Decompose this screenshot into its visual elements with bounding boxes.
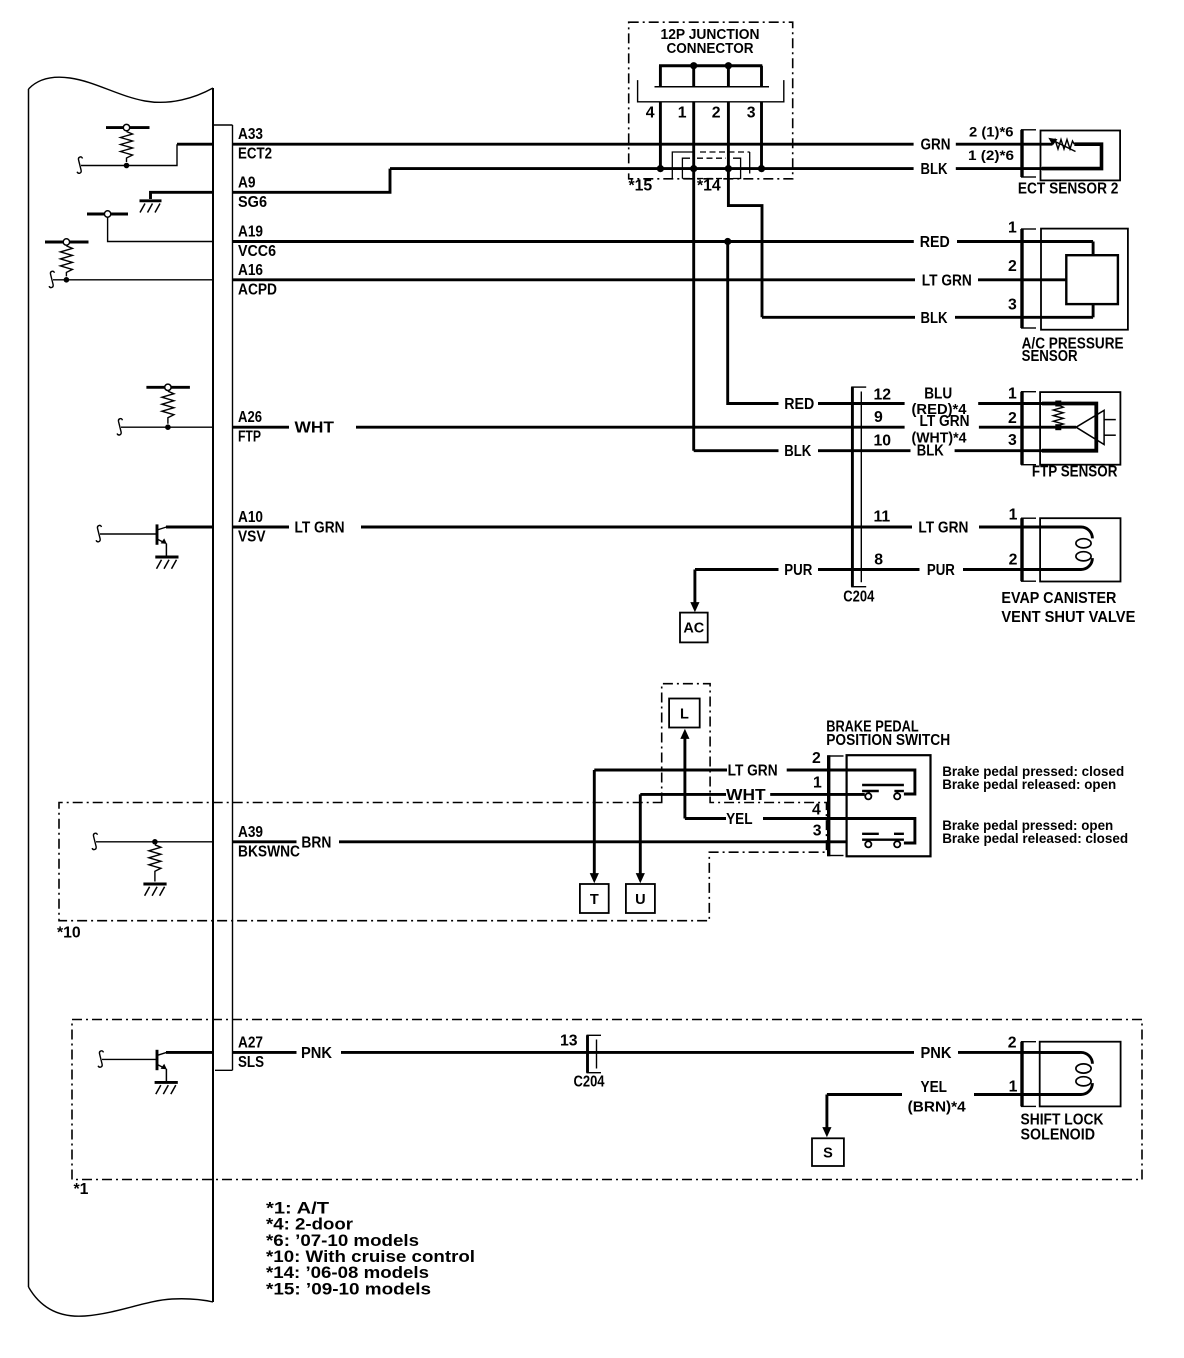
svg-text:BLK: BLK — [784, 443, 811, 460]
svg-text:*15: *15 — [629, 178, 653, 195]
wire BLU to FTP pin 1 — [978, 402, 1096, 405]
shift lock solenoid coil — [1040, 1052, 1092, 1094]
svg-text:C204: C204 — [843, 589, 874, 606]
12P junction connector title — [661, 27, 760, 57]
wire YEL brake pin4 — [685, 817, 726, 820]
wire RED to A/C sensor — [957, 240, 1093, 243]
svg-text:A9: A9 — [238, 174, 256, 191]
svg-text:2: 2 — [712, 105, 721, 122]
EVAP solenoid coil — [1041, 527, 1093, 570]
svg-text:PUR: PUR — [784, 562, 812, 579]
box T — [580, 884, 609, 913]
pin A9 label — [238, 174, 267, 211]
f-mark ACPD — [49, 271, 54, 287]
svg-text:1: 1 — [1009, 507, 1018, 524]
junction dot VCC6 branch — [724, 238, 731, 245]
svg-text:1: 1 — [1009, 1079, 1018, 1096]
dash-dot box *1 — [72, 1020, 1142, 1180]
resistor R3 pull-up (FTP) — [146, 384, 190, 430]
switch lower contact bar — [862, 839, 904, 841]
svg-text:PNK: PNK — [301, 1045, 333, 1062]
12P housing inner bar — [655, 86, 770, 88]
switch lower right contact — [894, 840, 900, 848]
connector bracket EVAP valve — [1021, 518, 1036, 581]
svg-text:A39: A39 — [238, 824, 263, 841]
svg-text:EVAP CANISTER: EVAP CANISTER — [1001, 590, 1117, 607]
svg-text:1: 1 — [1008, 386, 1017, 403]
svg-text:A19: A19 — [238, 224, 263, 241]
svg-text:1: 1 — [678, 105, 687, 122]
switch upper left contact — [862, 791, 879, 799]
ECM/PCM torn boundary box — [29, 77, 214, 1316]
svg-text:CONNECTOR: CONNECTOR — [667, 41, 754, 57]
connector C204 pin 13 — [587, 1035, 602, 1072]
label SHIFT LOCK SOLENOID — [1021, 1112, 1105, 1144]
wire LT GRN to C204 pin 11 — [361, 526, 912, 529]
svg-text:2: 2 — [1008, 258, 1017, 275]
f-mark FTP — [117, 419, 122, 435]
box U — [626, 884, 655, 913]
wire PNK to solenoid pin 2 — [958, 1051, 1080, 1054]
wire ECT internal loop — [1042, 144, 1102, 168]
junction dot BLK pin1 — [690, 165, 697, 172]
svg-text:BLK: BLK — [921, 161, 948, 178]
ECT sensor 2 box — [1041, 131, 1121, 181]
pin A27 label — [238, 1034, 264, 1071]
svg-text:FTP: FTP — [238, 429, 261, 446]
svg-text:*15: ’09-10 models: *15: ’09-10 models — [266, 1279, 431, 1298]
svg-text:YEL: YEL — [726, 811, 753, 828]
wire A16/ACPD to LT GRN — [233, 278, 916, 281]
arrow from YEL up to L — [680, 729, 689, 819]
svg-text:BRN: BRN — [301, 834, 331, 851]
svg-text:FTP SENSOR: FTP SENSOR — [1032, 464, 1118, 481]
svg-text:LT GRN: LT GRN — [922, 272, 972, 289]
switch lower open dashes — [862, 833, 904, 835]
wire LT GRN to FTP pin 2 — [979, 426, 1076, 429]
wire BLK to A/C sensor from 12P pin2 — [762, 316, 915, 319]
svg-text:RED: RED — [920, 234, 950, 251]
FTP internal loop pin1-pin3 — [1042, 404, 1096, 451]
resistor R1 pull-up (ECT2) — [106, 124, 150, 168]
svg-text:WHT: WHT — [726, 787, 766, 804]
svg-text:S: S — [823, 1146, 833, 1162]
wire VCC6 internal — [108, 217, 213, 241]
svg-text:ACPD: ACPD — [238, 281, 277, 298]
f-mark VSV — [96, 525, 101, 541]
pin A16 label — [238, 262, 277, 299]
wire BLK into A/C sensor — [955, 316, 1093, 319]
wire WHT to connector — [770, 793, 846, 796]
svg-text:WHT: WHT — [295, 420, 335, 437]
wire ACPD internal — [53, 279, 213, 281]
wire A/C pin3 leg — [1092, 304, 1095, 317]
f-mark ECT2 — [77, 157, 82, 173]
svg-text:12: 12 — [874, 387, 892, 404]
wire GRN to ECT sensor — [956, 143, 1053, 146]
resistor R2 pull-up (ACPD) — [45, 239, 89, 283]
A/C pressure sensor box — [1041, 229, 1128, 330]
svg-text:11: 11 — [874, 509, 891, 526]
*14 alternate box — [682, 158, 740, 178]
ground SLS — [155, 1082, 178, 1094]
*15 alternate box — [672, 152, 749, 179]
FTP triangle stub lower — [1104, 434, 1116, 436]
box S — [812, 1138, 844, 1166]
wire ECT2 internal — [81, 144, 213, 165]
svg-text:SLS: SLS — [238, 1054, 264, 1071]
wire VSV internal — [166, 526, 213, 529]
svg-text:BKSWNC: BKSWNC — [238, 843, 300, 860]
pin A26 label — [238, 409, 262, 446]
svg-text:13: 13 — [560, 1033, 578, 1050]
wire 12P pin 4 — [659, 102, 662, 169]
wire 12P pin 3 — [760, 102, 763, 169]
svg-text:A10: A10 — [238, 509, 263, 526]
EVAP valve box — [1040, 518, 1120, 581]
wire A9/SG6 riser — [233, 169, 391, 193]
svg-text:Brake pedal released: closed: Brake pedal released: closed — [942, 830, 1128, 846]
wire PUR from AC branch — [695, 568, 779, 571]
brake pedal position switch box — [847, 755, 931, 856]
svg-text:2: 2 — [1008, 1035, 1017, 1052]
wire BRN to brake pin3 — [339, 840, 847, 843]
svg-text:2: 2 — [1008, 410, 1017, 427]
connector bracket brake switch — [828, 755, 844, 856]
wire A19/VCC6 to RED — [233, 240, 914, 243]
FTP internal resistor — [1053, 401, 1063, 431]
connector bracket A/C pressure sensor — [1021, 229, 1036, 328]
wire YEL to solenoid pin 1 — [974, 1093, 1080, 1096]
f-mark SLS — [98, 1051, 103, 1067]
svg-text:AC: AC — [683, 621, 704, 637]
label BRAKE PEDAL POSITION SWITCH — [826, 719, 950, 750]
wire A39/BKSWNC BRN left — [233, 840, 297, 843]
svg-text:A26: A26 — [238, 409, 262, 426]
shift lock solenoid box — [1040, 1042, 1121, 1107]
wire PUR to C204 pin 8 — [818, 568, 920, 571]
svg-text:LT GRN: LT GRN — [295, 520, 345, 537]
svg-text:3: 3 — [1008, 432, 1017, 449]
svg-text:BLK: BLK — [917, 443, 944, 460]
svg-text:ECT SENSOR 2: ECT SENSOR 2 — [1018, 181, 1119, 198]
dash-dot box *10 — [59, 684, 827, 921]
svg-text:3: 3 — [1008, 296, 1017, 313]
svg-text:VENT SHUT VALVE: VENT SHUT VALVE — [1001, 609, 1135, 626]
junction dot bus pin2 — [725, 62, 732, 69]
transistor Q2 (SLS driver) — [102, 1050, 167, 1081]
svg-text:T: T — [590, 892, 599, 908]
svg-text:RED: RED — [784, 396, 814, 413]
svg-text:2 (1)*6: 2 (1)*6 — [969, 124, 1014, 140]
A/C sensor inner element — [1066, 255, 1118, 304]
wire SG6 internal — [151, 192, 214, 199]
arrow down to U — [636, 794, 645, 883]
12P housing shell — [638, 80, 784, 102]
arrow down to T — [590, 770, 599, 883]
svg-text:LT GRN: LT GRN — [918, 520, 968, 537]
wire RED to C204 pin 12 — [818, 402, 905, 405]
switch upper pin2 loop — [847, 770, 915, 794]
wire BLK 12P run — [390, 167, 914, 170]
box L — [669, 699, 700, 728]
svg-text:LT GRN: LT GRN — [920, 413, 970, 430]
svg-text:*1: *1 — [74, 1181, 89, 1198]
wire 12P pin1 BLK to C204 pin 10 — [694, 449, 779, 452]
svg-text:3: 3 — [747, 105, 756, 122]
junction dot BLK pin3 — [758, 165, 765, 172]
thermistor arrow ECT — [1048, 138, 1075, 152]
svg-text:C204: C204 — [574, 1074, 605, 1091]
svg-text:9: 9 — [874, 409, 883, 426]
switch annotation lower — [942, 817, 1128, 846]
FTP triangle stub upper — [1104, 419, 1116, 421]
wire FTP internal — [121, 426, 213, 428]
connector bracket shift lock solenoid — [1021, 1042, 1036, 1107]
wire BLK mid segment — [818, 449, 911, 452]
transistor Q1 (VSV driver) — [100, 524, 167, 555]
switch annotation upper — [942, 763, 1124, 792]
switch upper crossbar — [862, 784, 904, 786]
svg-text:*10: *10 — [57, 925, 81, 942]
wire A10/VSV LT GRN left — [233, 526, 290, 529]
connector bracket ECT sensor 2 — [1021, 130, 1036, 177]
label YEL / (BRN)*4 — [908, 1079, 966, 1115]
wire LT GRN to connector — [787, 769, 847, 772]
svg-text:PUR: PUR — [927, 562, 955, 579]
pin A10 label — [238, 509, 266, 546]
switch lower left contact — [865, 840, 871, 848]
ECM pin connector column — [213, 125, 233, 1070]
wire 12P pin 2 down jog — [728, 102, 762, 317]
svg-text:8: 8 — [874, 552, 883, 569]
connector bracket FTP sensor — [1021, 392, 1036, 465]
wire WHT to C204 pin 9 — [356, 426, 905, 429]
svg-text:4: 4 — [646, 105, 655, 122]
wire YEL to connector — [763, 817, 847, 820]
junction dot BLK pin4 — [657, 165, 664, 172]
svg-text:LT GRN: LT GRN — [728, 763, 778, 780]
connector C204 — [851, 387, 866, 587]
arrow down to S — [822, 1095, 831, 1138]
node VCC6 supply bar — [87, 211, 128, 217]
svg-text:GRN: GRN — [921, 137, 951, 154]
wire A26/FTP WHT left — [233, 426, 290, 429]
svg-text:PNK: PNK — [921, 1045, 953, 1062]
svg-text:2: 2 — [1009, 552, 1018, 569]
ground SG6 — [140, 201, 162, 213]
12P pin 3 upper stub — [760, 66, 763, 87]
12P pin 1 upper stub — [692, 66, 695, 87]
svg-text:A16: A16 — [238, 262, 263, 279]
switch upper pin1 lead — [847, 793, 865, 796]
wire A/C pin1 leg — [1092, 242, 1095, 256]
wire YEL (BRN)*4 — [827, 1093, 902, 1096]
svg-text:ECT2: ECT2 — [238, 146, 272, 163]
svg-text:BLU: BLU — [924, 386, 952, 403]
svg-text:VCC6: VCC6 — [238, 243, 276, 260]
wire LT GRN to A/C sensor — [978, 278, 1066, 281]
f-mark BKSWNC — [92, 833, 97, 849]
svg-text:1 (2)*6: 1 (2)*6 — [968, 147, 1014, 163]
svg-text:SENSOR: SENSOR — [1022, 348, 1078, 365]
label EVAP CANISTER VENT SHUT VALVE — [1001, 590, 1135, 626]
pin A19 label — [238, 224, 276, 261]
wire WHT brake pin1 — [640, 793, 726, 796]
wire BLK to ECT sensor — [956, 167, 1102, 170]
svg-text:1: 1 — [813, 774, 822, 791]
svg-text:L: L — [680, 707, 689, 723]
ground BKSWNC — [143, 884, 166, 896]
wire 12P pin 1 down to FTP BLK — [692, 102, 695, 451]
wire PNK to C204 pin13 — [341, 1051, 914, 1054]
wire BKSWNC internal — [96, 841, 213, 843]
svg-text:4: 4 — [812, 802, 821, 819]
svg-text:VSV: VSV — [238, 529, 266, 546]
wire A27/SLS PNK left — [233, 1051, 297, 1054]
junction dot BLK pin2 — [725, 165, 732, 172]
12P junction bus bar — [659, 64, 762, 67]
junction dot bus pin1 — [690, 62, 697, 69]
svg-text:SG6: SG6 — [238, 194, 267, 211]
wire SLS internal — [166, 1051, 213, 1054]
svg-text:10: 10 — [874, 433, 892, 450]
svg-text:POSITION SWITCH: POSITION SWITCH — [826, 732, 950, 749]
svg-text:U: U — [635, 892, 645, 908]
wire LT GRN to EVAP pin 1 — [979, 526, 1080, 529]
thermistor zigzag ECT — [1052, 140, 1074, 150]
wire A33/ECT2 to GRN — [233, 143, 914, 146]
12P junction connector dashed outline — [629, 22, 793, 179]
wire LT GRN brake pin2 — [594, 769, 727, 772]
svg-text:A27: A27 — [238, 1034, 263, 1051]
switch upper right contact — [894, 791, 904, 799]
svg-text:3: 3 — [813, 823, 822, 840]
12P pin 2 upper stub — [727, 66, 730, 87]
svg-text:SOLENOID: SOLENOID — [1021, 1127, 1096, 1144]
pin A39 label — [238, 824, 300, 861]
switch lower pin4 loop — [847, 819, 915, 844]
FTP sensor box — [1040, 392, 1120, 465]
pin A33 label — [238, 126, 272, 163]
box AC — [680, 613, 708, 643]
svg-text:Brake pedal released: open: Brake pedal released: open — [942, 776, 1116, 792]
svg-text:1: 1 — [1008, 220, 1017, 237]
arrow to AC — [690, 570, 699, 613]
svg-text:2: 2 — [812, 750, 821, 767]
wire BLK to FTP pin 3 — [955, 449, 1097, 452]
svg-text:YEL: YEL — [921, 1079, 948, 1096]
svg-text:(BRN)*4: (BRN)*4 — [908, 1099, 966, 1115]
wire PUR to EVAP pin 2 — [963, 568, 1080, 571]
resistor R4 pull-down (BKSWNC) — [149, 839, 161, 882]
12P pin 4 upper stub — [659, 66, 662, 87]
label LT GRN / (WHT)*4 — [912, 413, 970, 447]
label A/C PRESSURE SENSOR — [1022, 336, 1124, 366]
ground VSV — [155, 557, 178, 569]
label BLU / (RED)*4 — [912, 386, 967, 418]
FTP amplifier triangle — [1076, 410, 1104, 444]
svg-text:A33: A33 — [238, 126, 263, 143]
svg-text:BLK: BLK — [921, 310, 948, 327]
wire VCC6 branch down to FTP RED — [728, 242, 779, 404]
svg-text:*14: *14 — [697, 178, 721, 195]
